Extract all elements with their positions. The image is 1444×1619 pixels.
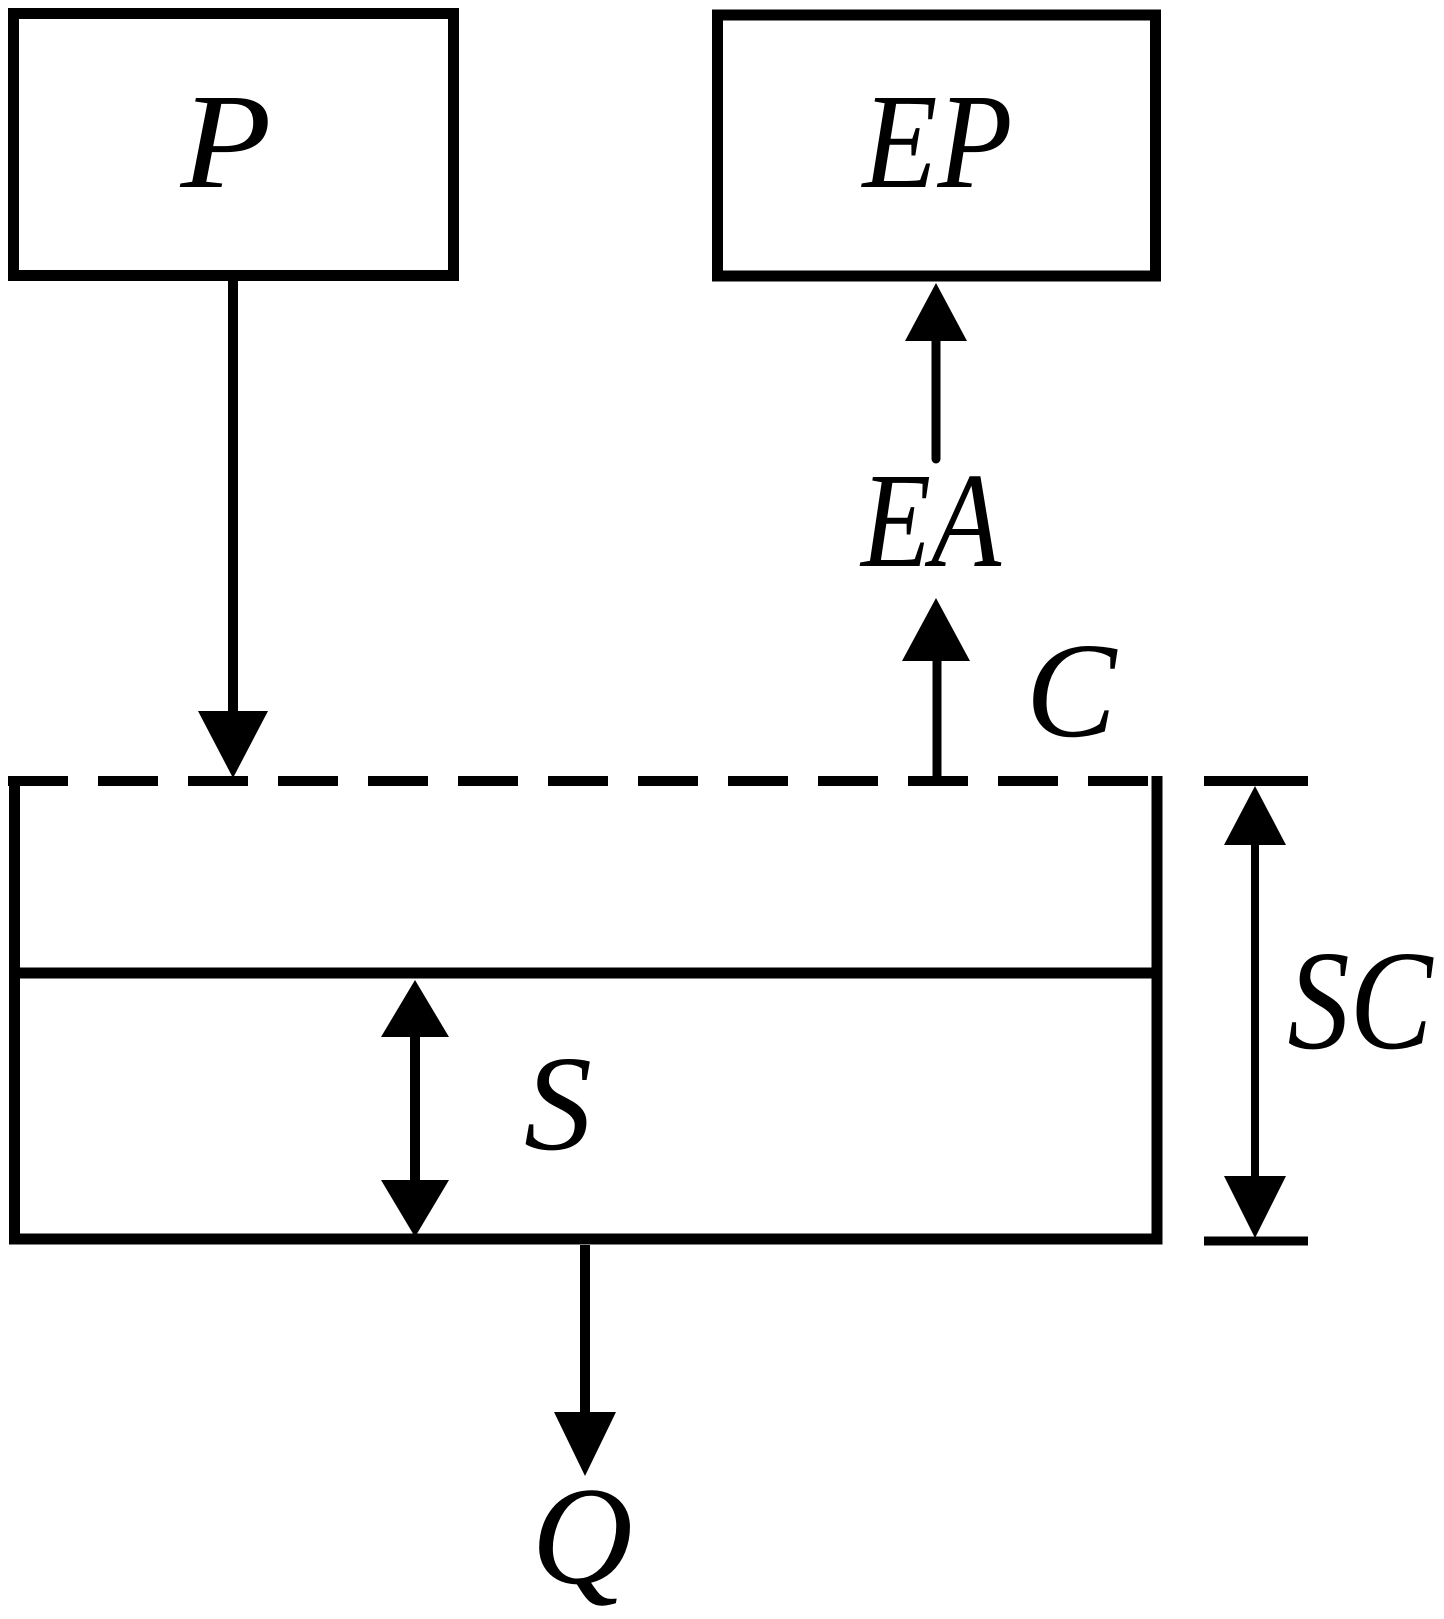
arrowhead EA-to-EP up — [905, 283, 967, 341]
arrowhead SC up — [1224, 786, 1286, 845]
SC dimension top tick — [1204, 776, 1308, 786]
arrowhead SC down — [1224, 1176, 1286, 1238]
box EP — [718, 15, 1156, 276]
arrowhead C-to-EA up — [902, 598, 970, 661]
svg-text:SC: SC — [1288, 921, 1435, 1079]
wire Q shaft — [580, 1245, 590, 1416]
arrowhead S down — [381, 1180, 449, 1237]
box P — [14, 14, 454, 276]
reservoir tank walls — [15, 776, 1158, 1239]
wire SC shaft — [1251, 841, 1259, 1180]
arrowhead P down — [198, 711, 268, 778]
arrowhead S up — [381, 980, 449, 1037]
svg-text:P: P — [179, 67, 271, 217]
water surface line S — [10, 968, 1163, 979]
wire P arrow shaft — [228, 281, 238, 716]
arrowhead Q down — [554, 1412, 616, 1476]
svg-text:EP: EP — [861, 67, 1013, 217]
SC dimension bottom tick — [1204, 1237, 1308, 1246]
svg-text:Q: Q — [531, 1459, 632, 1614]
svg-text:S: S — [524, 1029, 592, 1179]
svg-text:C: C — [1026, 616, 1118, 766]
svg-text:EA: EA — [859, 446, 1001, 596]
wire EA upper shaft — [932, 337, 941, 459]
wire EA lower shaft — [933, 657, 942, 781]
wire S shaft — [410, 1033, 420, 1184]
dashed water level line — [8, 776, 1163, 786]
